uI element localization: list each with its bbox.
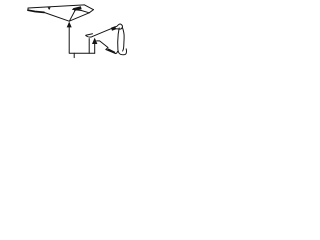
left part left end closure (27, 8, 29, 10)
right part blade upper branch (86, 34, 93, 36)
left part dark patch (73, 6, 82, 11)
left part crease line (70, 9, 76, 21)
left part lower edge thick band (28, 10, 44, 12)
right part bracket right edge (122, 27, 124, 51)
left part top edge (28, 5, 84, 8)
riser line (88, 39, 90, 54)
left part beak lower lip (73, 9, 90, 12)
tick marker on top edge (48, 7, 51, 10)
right part dark patch (111, 26, 116, 31)
base line lower tick (73, 53, 75, 57)
right part flange fill (107, 49, 116, 54)
right part bracket left leg and bottom (118, 28, 127, 55)
left up-arrow head (67, 22, 72, 28)
right up-arrow shaft (94, 44, 96, 54)
right part flange inner edge (108, 49, 115, 52)
left part beak top edge (84, 5, 93, 10)
right part shelf and flange (97, 41, 118, 54)
left up-arrow shaft and base line (69, 27, 95, 54)
right part blade edge with nib (86, 24, 123, 37)
left part lower edge to vertex (44, 12, 69, 21)
left part beak return and wing edge (69, 10, 93, 22)
right up-arrow head (92, 38, 97, 44)
